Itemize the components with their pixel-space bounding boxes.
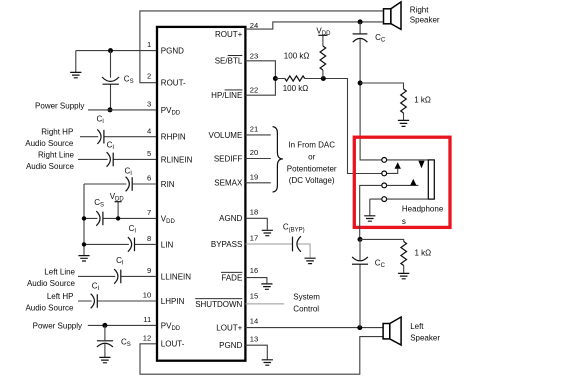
wire jack ring2 to CC bottom	[360, 185, 382, 239]
wire pin14 LOUT+ to left speaker	[245, 327, 383, 329]
svg-text:5: 5	[147, 149, 151, 158]
svg-text:PGND: PGND	[161, 47, 184, 56]
wire pin3 PVDD power supply	[88, 109, 156, 111]
ground input bus	[78, 256, 89, 261]
svg-text:Right HP: Right HP	[41, 128, 73, 137]
svg-text:16: 16	[250, 266, 258, 275]
contact arrow down	[418, 161, 424, 169]
wire pin15 SHUTDOWN stub	[245, 303, 284, 305]
svg-text:1 kΩ: 1 kΩ	[414, 96, 431, 105]
svg-text:9: 9	[147, 266, 151, 275]
svg-text:LOUT-: LOUT-	[161, 340, 185, 349]
ground pin1	[70, 51, 81, 78]
wire pin24 ROUT+ to right speaker bottom	[245, 22, 383, 29]
svg-text:HP/LINE: HP/LINE	[211, 91, 242, 100]
ground pin13	[262, 360, 273, 365]
svg-text:VOLUME: VOLUME	[209, 131, 243, 140]
svg-text:15: 15	[250, 292, 258, 301]
wire to 1k top	[360, 83, 403, 120]
contact arrow up 2	[410, 179, 416, 185]
capacitor CC bottom	[352, 257, 368, 264]
node junction pin3/power	[108, 107, 113, 112]
capacitor CI pin6	[126, 177, 133, 192]
svg-text:14: 14	[250, 316, 258, 325]
speaker left	[383, 317, 401, 345]
wire main vertical right CC top chain	[360, 22, 382, 160]
svg-text:1 kΩ: 1 kΩ	[415, 248, 432, 257]
node junction bus/pin7	[82, 216, 86, 220]
svg-text:ROUT+: ROUT+	[215, 30, 243, 39]
headphone jack circle ring2	[382, 183, 387, 188]
capacitor CI pin5	[107, 152, 114, 167]
svg-text:4: 4	[147, 126, 151, 135]
svg-text:6: 6	[147, 174, 151, 183]
svg-text:Audio Source: Audio Source	[25, 304, 74, 313]
svg-text:In From DAC: In From DAC	[288, 141, 335, 150]
svg-text:22: 22	[250, 85, 258, 94]
svg-text:(DC Voltage): (DC Voltage)	[289, 176, 335, 185]
svg-text:3: 3	[147, 100, 151, 109]
ground CBYP	[305, 258, 316, 263]
svg-text:Speaker: Speaker	[410, 15, 440, 24]
svg-text:12: 12	[143, 333, 151, 342]
headphone jack circle tip	[382, 158, 387, 163]
svg-text:LOUT+: LOUT+	[216, 324, 242, 333]
svg-text:23: 23	[250, 51, 258, 60]
wire pin19 SEMAX	[245, 182, 270, 184]
node junction 23/22	[273, 76, 278, 81]
capacitor CI pin9	[114, 269, 121, 284]
resistor R 100k horizontal	[285, 76, 305, 81]
svg-text:LHPIN: LHPIN	[161, 297, 185, 306]
svg-text:SEMAX: SEMAX	[214, 179, 243, 188]
ground 1k bottom	[398, 273, 409, 278]
node junction 100k/100k	[321, 76, 326, 81]
wire pin5 RLINEIN	[78, 158, 156, 160]
svg-text:Right: Right	[410, 5, 429, 14]
wire pin6 RIN	[84, 183, 156, 185]
node junction pin11/CS	[102, 323, 107, 328]
wire pin8 LIN	[84, 243, 156, 245]
svg-text:13: 13	[250, 335, 258, 344]
headphone jack circle sleeve	[382, 197, 387, 202]
svg-text:Right Line: Right Line	[38, 150, 75, 159]
ground pin16	[261, 284, 272, 289]
svg-text:s: s	[402, 217, 406, 226]
overbar FADE	[221, 271, 242, 273]
wire pin4 RHPIN	[80, 136, 156, 138]
svg-text:10: 10	[143, 291, 151, 300]
wire pin10 LHPIN	[78, 300, 156, 302]
pin numbers right	[250, 21, 258, 344]
capacitor CS (top bypass)	[102, 77, 119, 84]
svg-text:AGND: AGND	[219, 214, 242, 223]
capacitor CI pin10	[91, 294, 98, 309]
svg-text:100 kΩ: 100 kΩ	[283, 84, 309, 93]
node junction VDD/pin7	[116, 216, 120, 220]
svg-text:LIN: LIN	[161, 240, 174, 249]
svg-text:Speaker: Speaker	[410, 333, 440, 342]
pin names right	[195, 30, 243, 350]
wire pin13 PGND	[245, 345, 267, 359]
ground 1k top	[398, 120, 409, 126]
supply VDD top	[318, 35, 327, 46]
svg-text:Left: Left	[410, 322, 424, 331]
speaker right	[384, 2, 402, 30]
svg-text:Audio Source: Audio Source	[26, 162, 75, 171]
svg-text:Power Supply: Power Supply	[35, 101, 84, 110]
wire jack sleeve	[370, 199, 429, 216]
svg-text:SE/BTL: SE/BTL	[215, 57, 243, 66]
svg-text:Audio Source: Audio Source	[27, 279, 76, 288]
ground jack sleeve	[364, 216, 375, 221]
resistor R 1k top	[401, 89, 407, 113]
wire CS bottom lead	[104, 325, 106, 357]
overbar LINE	[225, 89, 243, 91]
svg-text:24: 24	[250, 21, 258, 30]
svg-text:ROUT-: ROUT-	[161, 79, 186, 88]
svg-text:PGND: PGND	[219, 341, 242, 350]
svg-text:21: 21	[250, 125, 258, 134]
wire pin7 VDD row	[84, 217, 156, 219]
capacitor CS pin7	[96, 211, 103, 226]
resistor R 1k bottom	[401, 242, 407, 266]
wire pin11 PVDD power supply	[88, 324, 156, 326]
contact arrow up 1	[395, 162, 401, 169]
overbar SHUTDOWN	[195, 298, 242, 300]
wire pin21 VOLUME	[245, 134, 270, 136]
wire pin18 AGND	[245, 218, 267, 230]
wire pin9 LLINEIN	[78, 275, 156, 277]
wire pin20 SEDIFF	[245, 158, 270, 160]
supply VDD left	[115, 202, 122, 219]
node junction ROUT+/CC	[358, 19, 363, 24]
capacitor CBYP	[293, 236, 301, 252]
wire pin16 FADE	[245, 278, 267, 284]
svg-text:17: 17	[250, 234, 258, 243]
svg-text:FADE: FADE	[221, 273, 242, 282]
wire pin2 ROUT- to right speaker top	[140, 11, 384, 83]
wire 100k row	[275, 79, 381, 174]
pin names left	[161, 47, 193, 349]
svg-text:2: 2	[147, 71, 151, 80]
wire jack ring2 contact	[387, 184, 419, 186]
wire jack ring1 contact	[387, 169, 398, 174]
node junction bus/pin8	[82, 242, 86, 246]
brace control inputs	[273, 127, 283, 192]
svg-text:Power Supply: Power Supply	[33, 321, 82, 330]
capacitor CI pin8	[128, 237, 135, 252]
node junction CC bottom/1k	[358, 237, 363, 242]
wire pin1 PGND	[76, 50, 156, 52]
svg-text:RLINEIN: RLINEIN	[161, 155, 193, 164]
node junction pin1/CS	[108, 48, 113, 53]
svg-text:RHPIN: RHPIN	[161, 133, 186, 142]
wire pin17 BYPASS	[245, 244, 310, 258]
wire input ground bus vertical	[83, 184, 85, 255]
wire CS top lead	[110, 51, 112, 110]
headphone jack circle ring1	[382, 171, 387, 176]
svg-text:Headphone: Headphone	[402, 205, 444, 214]
jack body	[428, 160, 434, 199]
svg-text:BYPASS: BYPASS	[211, 240, 242, 249]
wire 100k vertical bottom lead	[322, 70, 324, 79]
svg-text:SHUTDOWN: SHUTDOWN	[195, 300, 242, 309]
svg-text:System: System	[293, 292, 320, 301]
wire pin12 LOUT- loop to left speaker bottom	[140, 337, 383, 375]
svg-text:7: 7	[147, 208, 151, 217]
node junction 1k top	[358, 81, 363, 86]
svg-text:Left Line: Left Line	[44, 267, 75, 276]
svg-text:8: 8	[147, 234, 151, 243]
svg-text:Potentiometer: Potentiometer	[287, 164, 337, 173]
capacitor CI pin4	[97, 129, 104, 144]
svg-text:20: 20	[250, 148, 258, 157]
svg-text:SEDIFF: SEDIFF	[214, 154, 243, 163]
node junction LOUT+/CC	[357, 325, 362, 330]
svg-text:1: 1	[147, 40, 151, 49]
IC U1 body	[157, 27, 245, 361]
svg-text:100 kΩ: 100 kΩ	[284, 52, 310, 61]
svg-text:LLINEIN: LLINEIN	[161, 272, 191, 281]
ground pin18	[262, 230, 273, 235]
svg-text:RIN: RIN	[161, 180, 175, 189]
svg-text:Audio Source: Audio Source	[25, 139, 74, 148]
svg-text:11: 11	[143, 315, 151, 324]
svg-text:Control: Control	[293, 305, 319, 314]
wire CC bottom chain	[359, 239, 361, 327]
capacitor CS (bottom bypass)	[97, 341, 113, 347]
highlight red box headphone jack	[354, 137, 450, 227]
wire jack tip rail	[387, 159, 429, 161]
wire pin23/pin22 SE-BTL HP-LINE	[245, 61, 275, 95]
pin numbers left	[143, 40, 151, 342]
resistor R 100k vertical	[320, 46, 326, 70]
capacitor CC top	[353, 34, 368, 42]
overbar BTL	[228, 55, 243, 57]
svg-text:18: 18	[250, 207, 258, 216]
svg-text:Left HP: Left HP	[47, 292, 74, 301]
svg-text:or: or	[308, 152, 315, 161]
wire to 1k bottom	[360, 239, 404, 273]
ground CS bottom	[99, 357, 110, 362]
svg-text:19: 19	[250, 172, 258, 181]
